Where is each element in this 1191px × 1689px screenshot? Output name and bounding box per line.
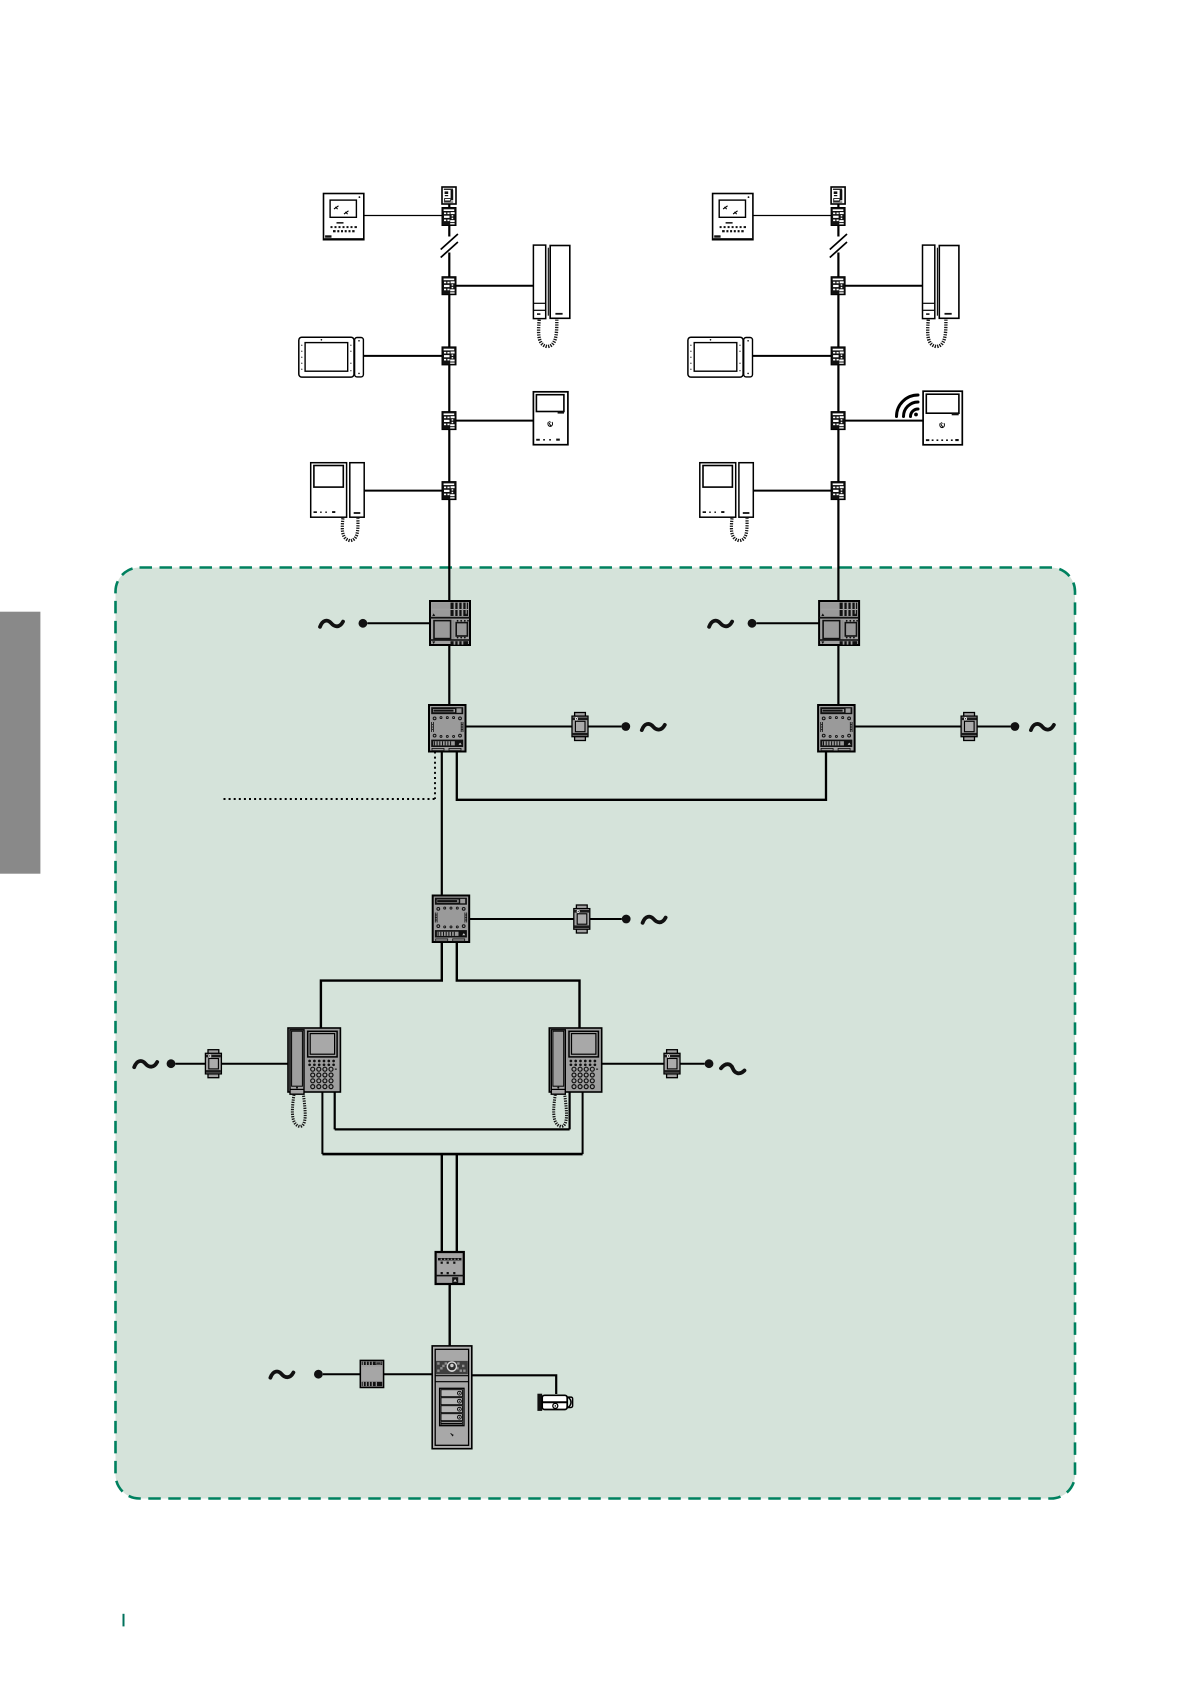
wifi arcs [897, 395, 919, 417]
left floor distributor 1 [442, 277, 456, 295]
junction box [436, 1252, 464, 1284]
entrance panel power supply [360, 1360, 383, 1387]
right wire to video handset monitor [753, 490, 831, 492]
right floor distributor 1 [831, 277, 845, 295]
left riser bus segment [448, 225, 450, 237]
right riser bus segment [837, 225, 839, 237]
right wide touchscreen monitor [688, 337, 753, 377]
wire right switchboard to adapter [602, 1063, 664, 1065]
left interface power adapter [572, 713, 588, 741]
right wire interface to adapter [855, 726, 962, 728]
video node power adapter [574, 905, 590, 933]
left riser bus segment [448, 253, 450, 602]
right riser bus segment [837, 204, 839, 208]
left floor distributor 2 [442, 347, 456, 365]
left compact hands-free monitor [533, 392, 568, 445]
left wire to wide monitor [363, 355, 442, 357]
left wide touchscreen monitor [299, 337, 364, 377]
left wire mains to power supply [367, 622, 430, 624]
right switchboard AC tilde [721, 1062, 745, 1075]
right compact wifi monitor [923, 391, 962, 445]
dotted supervision wire horizontal [224, 798, 436, 800]
wire power supply to panel [384, 1373, 433, 1375]
right switchboard mains node [705, 1059, 714, 1068]
right floor distributor 2 [831, 347, 845, 365]
right wire to compact monitor [845, 420, 922, 422]
left AC mains tilde [320, 621, 343, 627]
right wire to top monitor [753, 215, 831, 217]
video node mains node [622, 915, 631, 924]
entrance panel [432, 1346, 472, 1449]
left video monitor with handset [311, 463, 365, 541]
right riser interface module [818, 705, 855, 752]
right switchboard inner drop [568, 1092, 570, 1129]
left riser bus segment [448, 645, 450, 706]
right floor distributor 3 [831, 412, 845, 430]
right switchboard power adapter [664, 1050, 680, 1078]
left switchboard console [288, 1028, 340, 1127]
drop wire to junction box [456, 1154, 458, 1252]
wire video node to adapter [469, 918, 574, 920]
surveillance camera [537, 1394, 572, 1411]
wire panel to camera [472, 1375, 556, 1394]
left switchboard outer drop [321, 1092, 323, 1154]
right switchboard console [549, 1028, 601, 1127]
right riser bus segment [837, 253, 839, 602]
wire adapter to left switchboard [221, 1063, 288, 1065]
wire junction box to entrance panel [449, 1284, 451, 1346]
left wire adapter to mains [588, 726, 621, 728]
right wire to audio handset [845, 285, 922, 287]
right riser bus segment [837, 645, 839, 706]
right interface mains node [1011, 722, 1020, 731]
left riser bus segment [448, 204, 450, 208]
left interface AC tilde [642, 724, 665, 730]
left switchboard AC tilde [134, 1061, 157, 1067]
right riser head module [831, 187, 845, 204]
wire adapter to mains [680, 1063, 705, 1065]
drop wire to junction box [441, 1154, 443, 1252]
left wire to top monitor [364, 215, 442, 217]
left switchboard power adapter [205, 1050, 221, 1078]
right floor distributor 4 [831, 482, 845, 500]
page number tick [123, 1614, 125, 1627]
right wire mains to power supply [756, 622, 819, 624]
left switchboard inner drop [334, 1092, 336, 1129]
left column top video monitor [324, 194, 364, 240]
installation zone (green dashed panel) [116, 568, 1076, 1499]
right switchboard outer drop [582, 1092, 584, 1154]
left interface mains node [621, 722, 630, 731]
right riser power supply [819, 601, 859, 645]
left switchboard mains node [167, 1059, 176, 1068]
right interface AC tilde [1031, 724, 1054, 730]
left wire to audio handset [456, 285, 533, 287]
right interface power adapter [961, 713, 977, 741]
right audio handset interphone [923, 245, 959, 347]
right wire to wide monitor [753, 355, 832, 357]
backbone wire to video node [441, 752, 443, 896]
left wire interface to adapter [466, 726, 573, 728]
panel mains node [314, 1370, 323, 1379]
main video node interface [433, 896, 470, 943]
left riser distributor [442, 208, 456, 226]
outer link between switchboards [322, 1153, 582, 1156]
dotted supervision wire vertical [434, 752, 436, 800]
left floor distributor 4 [442, 482, 456, 500]
right column top video monitor [713, 194, 753, 240]
wire video node to left switchboard [321, 942, 442, 1028]
right video monitor with handset [700, 463, 754, 541]
right riser distributor [831, 208, 845, 226]
wire adapter to mains [590, 918, 622, 920]
left bus break symbol [441, 234, 458, 258]
left wire to compact monitor [456, 420, 533, 422]
inner link between switchboards [335, 1128, 570, 1130]
wire mains to panel power supply [323, 1373, 361, 1375]
link wire between riser interfaces [457, 752, 826, 800]
left audio handset interphone [533, 245, 569, 347]
page side tab [0, 612, 40, 874]
left riser power supply [430, 601, 470, 645]
right AC mains node [748, 619, 757, 628]
left AC mains node [359, 619, 368, 628]
left riser head module [442, 187, 456, 204]
wire video node to right switchboard [457, 942, 580, 1028]
right bus break symbol [830, 234, 847, 258]
left riser interface module [429, 705, 466, 752]
video node AC tilde [643, 917, 666, 923]
panel AC tilde [270, 1372, 293, 1378]
left floor distributor 3 [442, 412, 456, 430]
right AC mains tilde [709, 621, 732, 627]
right wire adapter to mains [977, 726, 1010, 728]
wire mains to left adapter [175, 1063, 205, 1065]
left wire to video handset monitor [364, 490, 442, 492]
